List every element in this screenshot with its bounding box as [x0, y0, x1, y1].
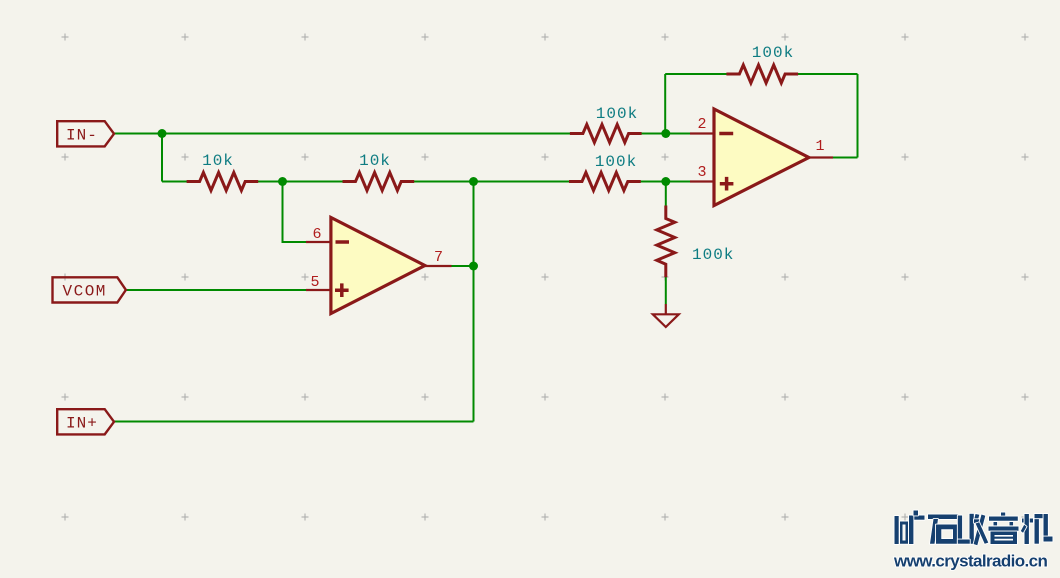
- pin 1 stub: [809, 156, 833, 158]
- wire node B down to op-amp pin 6: [283, 182, 307, 243]
- wire feedback left vertical: [664, 74, 666, 134]
- hierarchical label IN+: [57, 409, 114, 434]
- svg-text:100k: 100k: [692, 246, 734, 264]
- minus mark pin 2: [719, 132, 733, 136]
- resistor 100k feedback: [726, 65, 798, 83]
- plus mark pin 3: [720, 177, 734, 191]
- resistor 10k second: [343, 173, 415, 191]
- svg-text:VCOM: VCOM: [63, 282, 107, 300]
- op-amp U1A pins 6,5,7: [331, 218, 425, 314]
- svg-text:10k: 10k: [202, 152, 234, 170]
- wire feedback top left segment: [665, 73, 727, 75]
- svg-text:100k: 100k: [595, 153, 637, 171]
- resistor 100k to ground: [657, 206, 675, 278]
- op-amp U1B pins 2,3,1: [714, 109, 809, 206]
- junction node D2: [661, 129, 670, 138]
- wire resistor to ground symbol: [665, 277, 667, 305]
- svg-text:100k: 100k: [596, 105, 638, 123]
- svg-text:100k: 100k: [752, 44, 794, 62]
- svg-text:www.crystalradio.cn: www.crystalradio.cn: [893, 552, 1048, 571]
- wire node D down to ground resistor: [665, 182, 667, 207]
- wire feedback top right segment: [798, 73, 858, 75]
- junction node A: [158, 129, 167, 138]
- junction node E: [469, 262, 478, 271]
- svg-text:1: 1: [815, 138, 824, 155]
- svg-text:7: 7: [434, 249, 443, 266]
- junction node D: [661, 177, 670, 186]
- svg-text:IN-: IN-: [66, 126, 98, 144]
- hierarchical label VCOM: [53, 277, 126, 302]
- pin 6 stub: [306, 241, 331, 243]
- ground symbol: [653, 314, 679, 327]
- wire IN+ row: [114, 421, 474, 423]
- wire vertical from IN- node down: [161, 134, 163, 182]
- svg-text:IN+: IN+: [66, 414, 98, 432]
- svg-text:6: 6: [312, 226, 321, 243]
- wire second 10k to 100k resistor: [414, 181, 570, 183]
- junction node B: [278, 177, 287, 186]
- svg-text:2: 2: [697, 116, 706, 133]
- pin 7 stub: [425, 265, 452, 267]
- svg-text:5: 5: [310, 274, 319, 291]
- wire vertical node B column: [473, 182, 475, 422]
- pin 5 stub: [306, 289, 331, 291]
- wire op-amp output pin 1 to feedback: [833, 157, 858, 159]
- hierarchical label IN-: [57, 121, 114, 146]
- wire VCOM to op-amp pin 5: [126, 289, 306, 291]
- ground stub: [665, 304, 667, 314]
- junction node C: [469, 177, 478, 186]
- wire 100k resistor to op-amp pin 2: [641, 133, 690, 135]
- resistor 100k into pin 2: [570, 125, 642, 143]
- wire IN- to 100k resistor: [114, 133, 571, 135]
- svg-text:3: 3: [697, 164, 706, 181]
- minus mark pin 6: [336, 240, 350, 244]
- wire feedback right vertical: [857, 74, 859, 158]
- svg-text:10k: 10k: [359, 152, 391, 170]
- watermark logo 矿石收音机: [895, 511, 1053, 546]
- resistor 100k into pin 3: [569, 173, 641, 191]
- wire 100k resistor to op-amp pin 3: [640, 181, 690, 183]
- wire to first 10k resistor: [162, 181, 187, 183]
- pin 3 stub: [690, 180, 714, 182]
- wire op-amp output pin 7 to node C: [452, 265, 474, 267]
- wire between 10k resistors: [258, 181, 343, 183]
- resistor 10k first: [187, 173, 259, 191]
- plus mark pin 5: [335, 283, 349, 297]
- pin 2 stub: [690, 132, 714, 134]
